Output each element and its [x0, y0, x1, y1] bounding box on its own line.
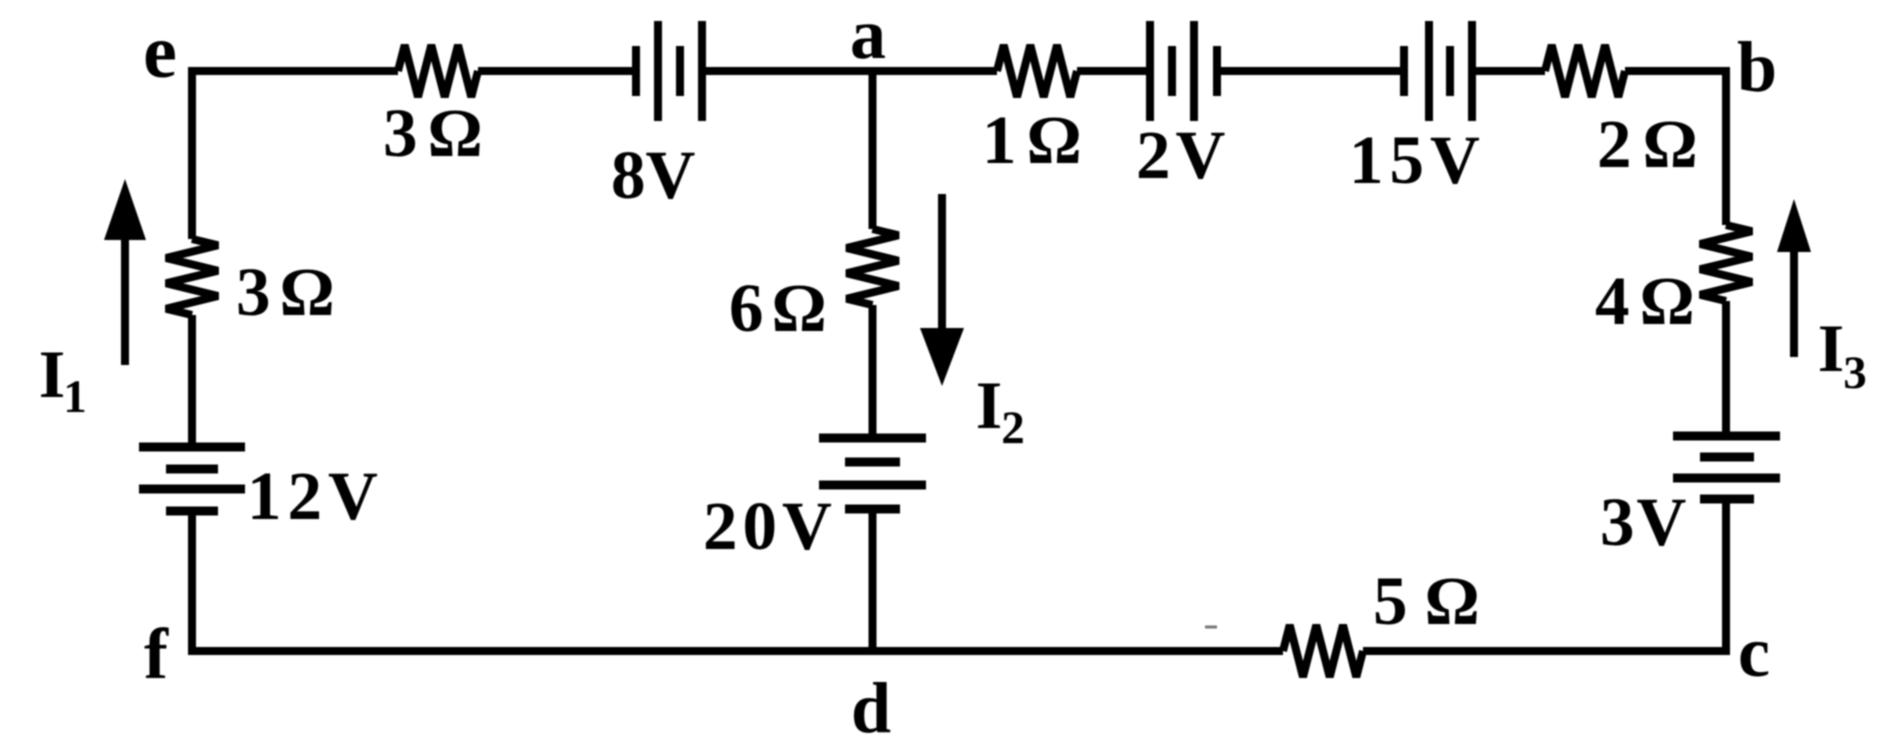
svg-text:2Ω: 2Ω	[1597, 106, 1709, 182]
svg-text:3V: 3V	[1600, 484, 1688, 560]
current arrow I3	[1777, 199, 1811, 357]
wire: resistor 2ohm to corner b	[1625, 67, 1730, 75]
svg-text:I: I	[976, 367, 1002, 443]
wire: resistor 3ohm to battery 8V	[478, 67, 636, 75]
battery 2V	[1150, 21, 1217, 121]
wire: battery 3V to corner c	[1722, 499, 1730, 655]
svg-text:b: b	[1737, 27, 1777, 107]
wire top: e to resistor 3ohm	[188, 67, 398, 75]
wire: battery 8V to node a to resistor 1ohm	[702, 67, 997, 75]
wire: battery 20V to node d	[869, 509, 877, 651]
svg-text:2: 2	[1001, 402, 1025, 454]
svg-text:3: 3	[1843, 347, 1867, 399]
resistor 5ohm	[1283, 625, 1363, 677]
current arrow I2	[920, 194, 964, 386]
battery 3V	[1673, 436, 1780, 499]
svg-text:8V: 8V	[611, 137, 696, 213]
battery 8V	[636, 21, 702, 121]
svg-text:4Ω: 4Ω	[1595, 263, 1705, 339]
wire: resistor 6ohm to battery 20V	[869, 305, 877, 438]
wire: resistor 5ohm to corner c	[1363, 647, 1730, 655]
svg-text:d: d	[851, 668, 891, 748]
current arrow I1	[104, 179, 146, 365]
svg-text:I: I	[1818, 310, 1844, 386]
resistor 6ohm	[847, 229, 899, 305]
resistor 2ohm	[1545, 45, 1625, 97]
stray mark	[1205, 626, 1217, 629]
svg-text:c: c	[1738, 612, 1770, 692]
svg-text:I: I	[39, 336, 65, 412]
wire: battery 12V to corner f	[188, 511, 196, 655]
wire middle branch: a down to resistor 6ohm	[869, 71, 877, 229]
wire right branch: b down to resistor 4ohm	[1722, 67, 1730, 225]
battery 12V	[139, 447, 245, 511]
wire: resistor 4ohm to battery 3V	[1722, 301, 1730, 436]
wire: resistor 3ohm to battery 12V	[188, 315, 196, 447]
svg-text:5Ω: 5Ω	[1373, 563, 1497, 639]
svg-text:1: 1	[63, 371, 87, 423]
battery 15V	[1404, 21, 1472, 121]
svg-text:15V: 15V	[1349, 122, 1486, 198]
wire: battery 15V to resistor 2ohm	[1472, 67, 1545, 75]
resistor 3ohm (left, e-f)	[166, 239, 218, 315]
svg-text:3Ω: 3Ω	[383, 95, 493, 171]
svg-text:6Ω: 6Ω	[729, 270, 835, 346]
svg-text:a: a	[850, 0, 886, 74]
svg-text:20V: 20V	[703, 488, 837, 564]
wire: battery 2V to battery 15V	[1217, 67, 1404, 75]
svg-text:3Ω: 3Ω	[236, 254, 344, 330]
svg-text:12V: 12V	[247, 458, 384, 534]
battery 20V	[819, 438, 926, 509]
wire: resistor 1ohm to battery 2V	[1077, 67, 1150, 75]
resistor 4ohm	[1700, 225, 1752, 301]
resistor 1ohm	[997, 45, 1077, 97]
wire left branch: e down to resistor 3ohm	[188, 67, 196, 239]
svg-text:f: f	[144, 614, 169, 694]
wire bottom: f to resistor 5ohm	[188, 647, 1283, 655]
svg-text:2V: 2V	[1136, 117, 1230, 193]
resistor 3ohm (top, e-a)	[398, 45, 478, 97]
svg-text:1Ω: 1Ω	[982, 102, 1092, 178]
svg-text:e: e	[143, 10, 177, 94]
